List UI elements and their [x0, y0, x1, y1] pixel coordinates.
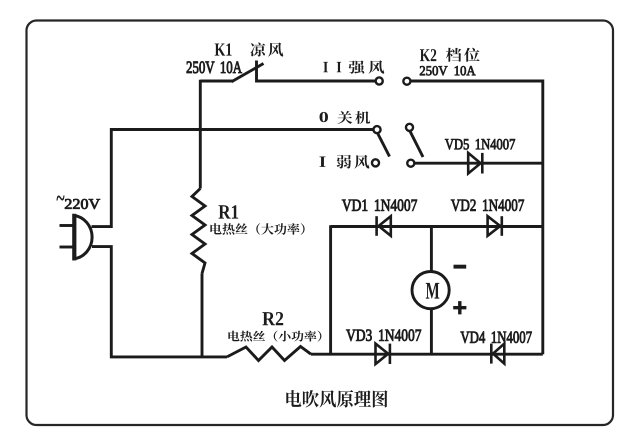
diode VD4: [491, 344, 504, 364]
wire: bridge left vertical: [329, 225, 332, 354]
label VD5 1N4007: [445, 139, 515, 150]
diode VD3: [376, 344, 390, 364]
label 档位 (gear): [446, 48, 480, 62]
label K2: [420, 49, 436, 61]
label VD2 1N4007: [451, 199, 524, 211]
label II position: [323, 62, 341, 72]
title 电吹风原理图 (hair dryer schematic): [286, 390, 387, 407]
label 220V: [65, 199, 100, 209]
label K1: [215, 43, 232, 55]
AC plug symbol: [74, 216, 92, 259]
switch K2 right blade: [410, 131, 423, 157]
diode VD1: [377, 216, 391, 236]
wire: bottom bus right of R2: [311, 353, 543, 356]
label VD4 1N4007: [461, 331, 532, 343]
wire: II right contact to right rail, rail down to bottom bus: [411, 81, 543, 354]
motor minus sign: [454, 265, 467, 269]
label 强风 (strong wind): [349, 60, 385, 73]
resistor R2 zigzag: [227, 347, 311, 361]
label R1: [219, 205, 239, 218]
K2 contact II left: [376, 77, 383, 84]
K2 contact I right: [407, 160, 414, 167]
label VD3 1N4007: [346, 329, 421, 341]
K2 pole left (0 position): [373, 126, 380, 133]
wire: K1 left terminal horizontal: [200, 80, 233, 83]
wire: plug top terminal to K2 pole row (upper-left loop): [92, 130, 375, 227]
switch K1 fixed contact and wire to II contact: [257, 61, 376, 82]
label VD1 1N4007: [342, 199, 417, 211]
switch K1 blade: [232, 64, 264, 82]
label K1 rating 250V 10A: [187, 62, 242, 74]
label 弱风 (weak wind): [337, 155, 370, 169]
label I position: [319, 157, 325, 167]
label K2 rating 250V 10A: [420, 66, 476, 75]
label R2 电热丝（小功率） (heater wire, low power): [228, 331, 321, 342]
wire: bridge top row: [331, 225, 543, 228]
label R2: [262, 312, 283, 325]
resistor R1 zigzag: [192, 189, 205, 274]
K2 contact II right: [403, 78, 410, 85]
switch K2 left blade: [377, 133, 389, 157]
label 0 position: [320, 112, 328, 122]
wire: R1 top lead from K1: [199, 80, 202, 189]
wire: I right contact row through VD5 to right rail: [415, 162, 543, 165]
plug flat side bar: [72, 214, 76, 261]
wire: R1 bottom lead to bottom bus: [201, 274, 204, 358]
motor M circle: [412, 272, 449, 309]
motor letter M: [426, 283, 440, 299]
wire: motor top lead: [430, 227, 433, 272]
motor plus sign: [453, 301, 466, 314]
K2 pole right (0 position): [406, 124, 413, 131]
label 关机 (off): [337, 111, 370, 124]
label 凉风 (cool air): [250, 42, 283, 56]
wire: plug bottom terminal down and bottom bus to right rail: [92, 247, 227, 357]
plug prong top: [60, 224, 75, 227]
wire: motor bottom lead: [430, 308, 433, 354]
label ~ (AC tilde): [57, 196, 65, 201]
K2 contact I left: [372, 159, 379, 166]
plug prong bottom: [60, 246, 75, 249]
diode VD2: [488, 216, 502, 236]
diode VD5: [468, 153, 482, 174]
label R1 电热丝（大功率） (heater wire, high power): [210, 223, 304, 235]
